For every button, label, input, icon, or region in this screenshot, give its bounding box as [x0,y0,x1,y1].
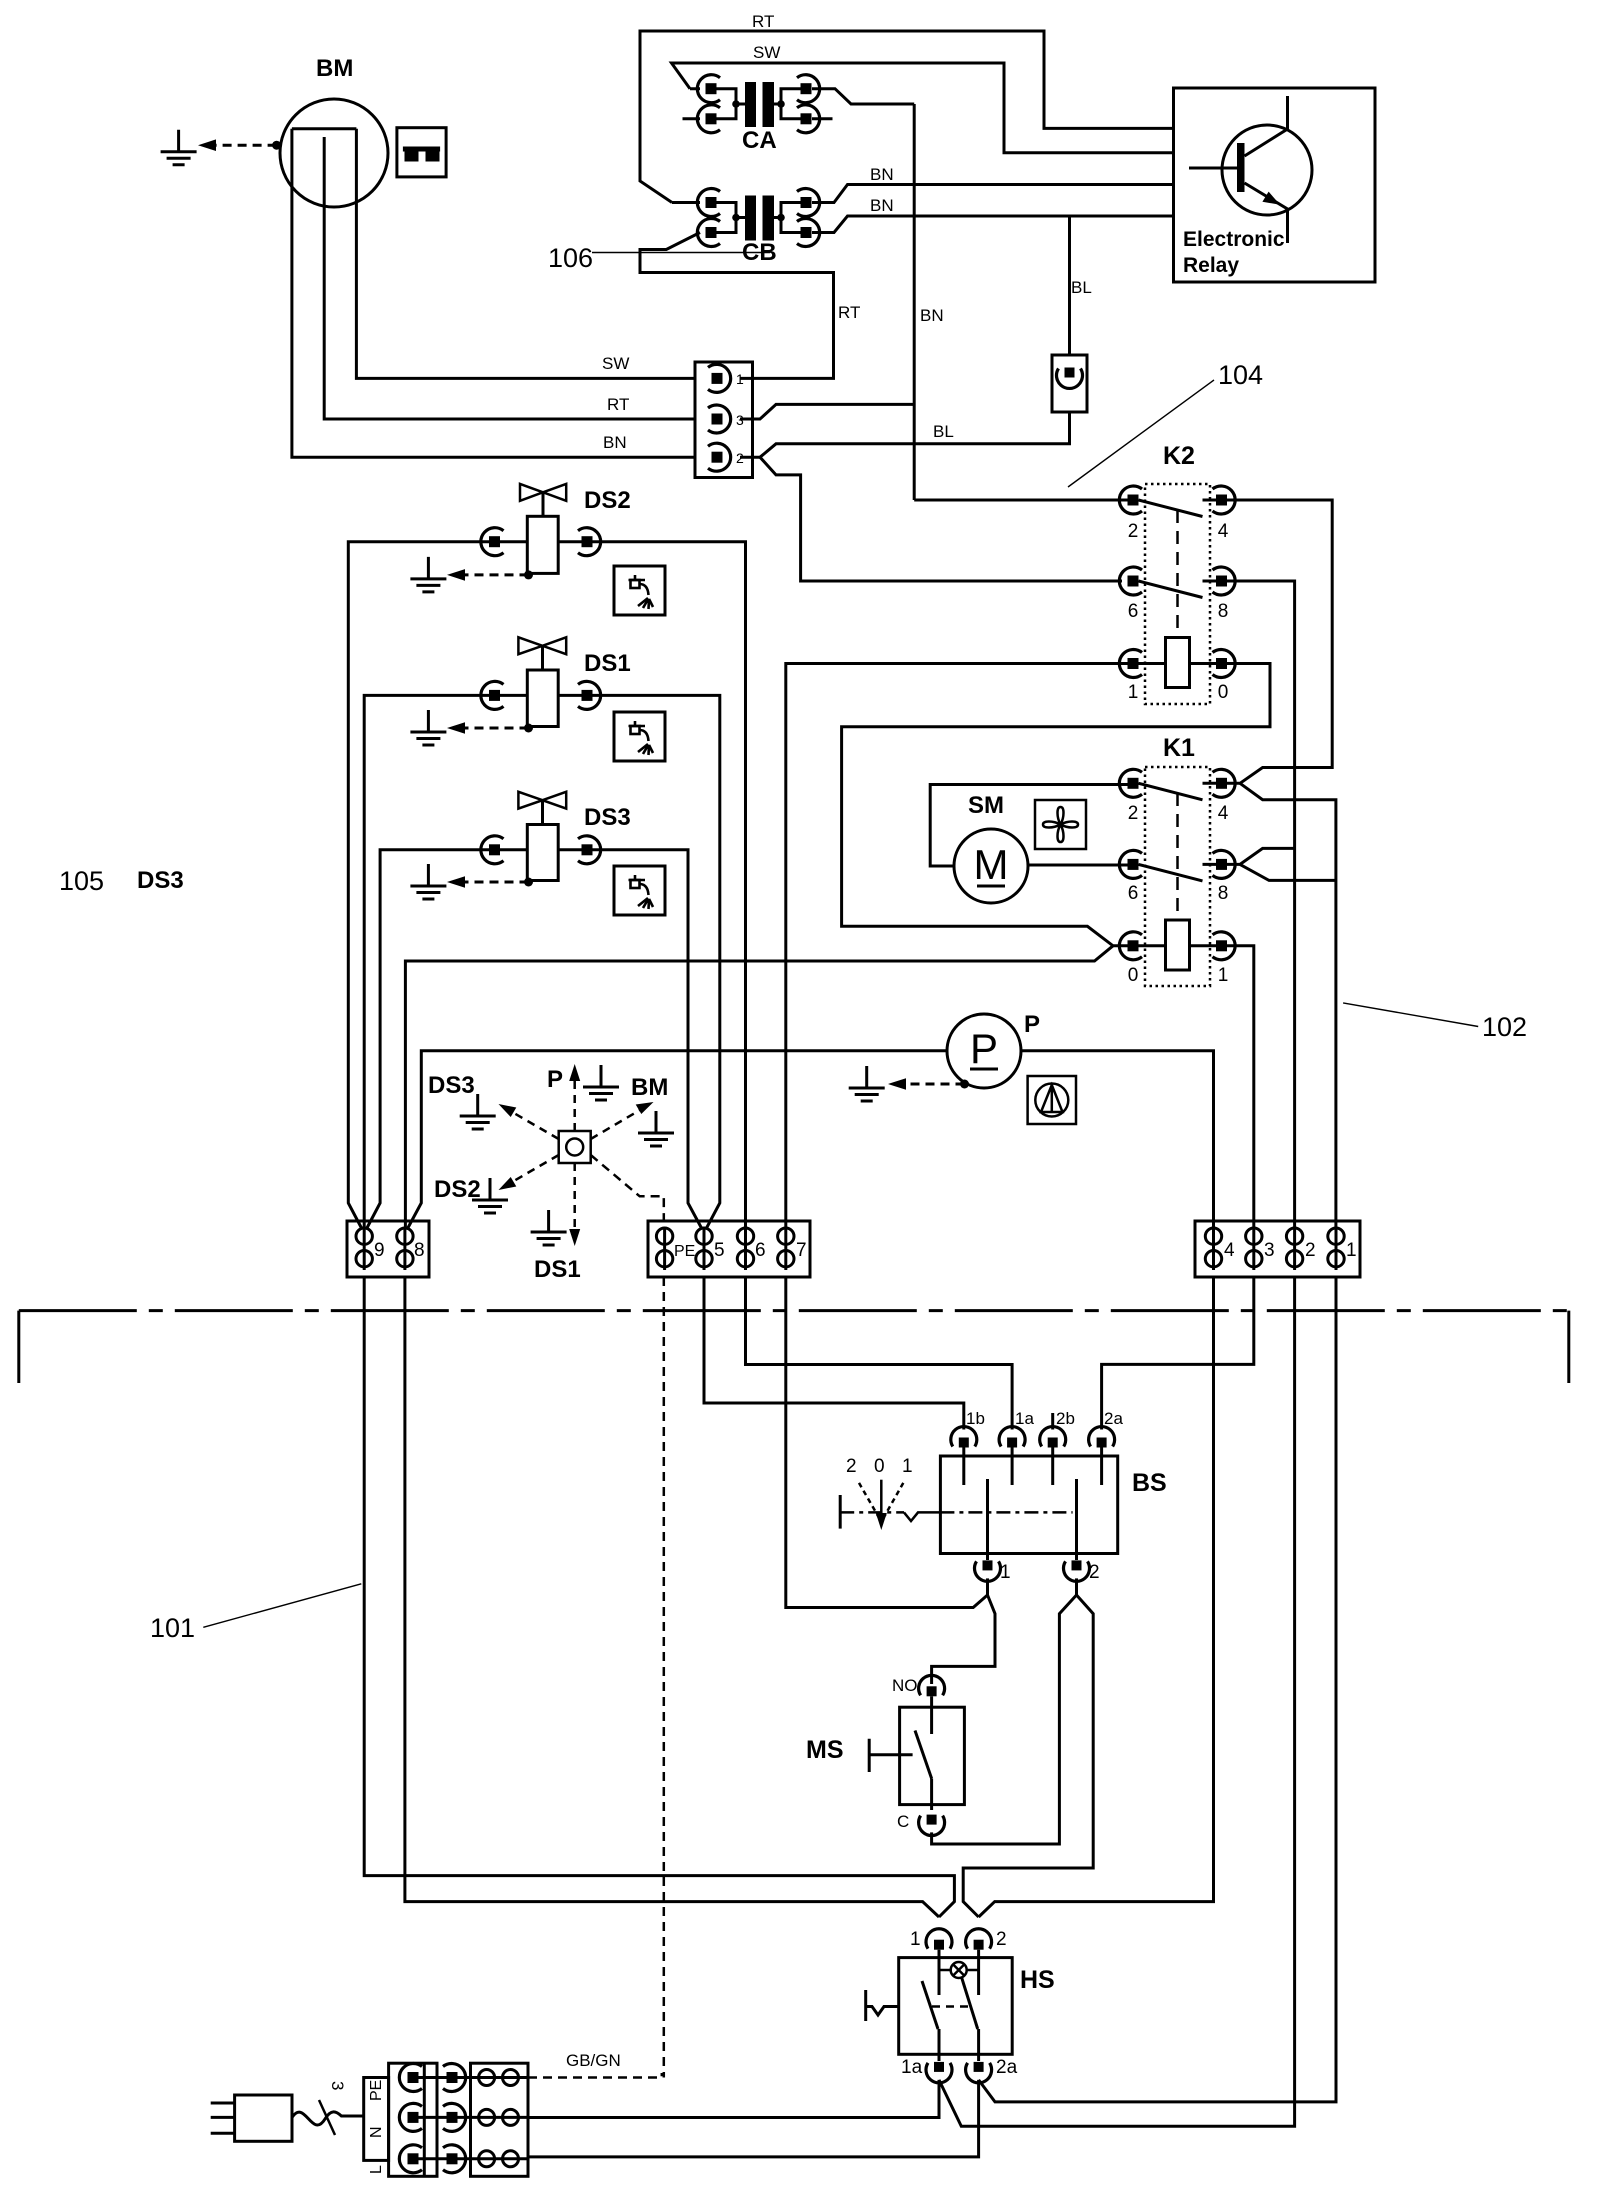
BS pin 2b stub [1051,1413,1054,1430]
wire K1 pin 8 fork to vertical x1294 [1227,848,1295,864]
BS pin 2b stem [1051,1448,1054,1486]
fan icon propeller [1043,807,1078,842]
valve DS1 stem [541,646,544,670]
wire K2 pin 1 row to strip pin 7 [786,664,1128,1229]
wire strip pin 5 down to BS pin 1b [704,1277,964,1430]
HS lamp connections [939,1969,979,1972]
BS pin 2a stem [1100,1448,1103,1486]
wire BS pin 1 to MS NO [932,1595,995,1684]
HS pin 2a plug [966,2062,992,2083]
ground right of P arrow [583,1065,619,1100]
mains plug body [235,2095,292,2141]
mating plug PE [443,2064,466,2092]
block A inner wall [423,2063,426,2176]
svg-text:1: 1 [1218,965,1229,986]
connector CA right plug upper [797,75,820,103]
valve DS3 stem [541,800,544,824]
svg-text:BN: BN [603,433,627,452]
arrowhead DS1 ground arrow [447,722,465,734]
right strip pin 2 circles [1293,1229,1296,1270]
wire K2 pin 0 around to K1 pin 0 [842,664,1270,946]
BS pin 2b plug [1040,1427,1066,1448]
transistor base lead [1189,167,1237,170]
K1 pin 0 plug [1119,932,1142,960]
svg-text:2a: 2a [1104,1409,1123,1428]
connector CB right plug upper [797,189,820,217]
svg-text:RT: RT [607,395,629,414]
junction dot at pump [960,1080,969,1089]
faucet icon DS3 [629,875,654,909]
switch BS box [940,1456,1117,1554]
svg-text:SW: SW [602,354,629,373]
svg-text:9: 9 [374,1240,385,1261]
connector pin 1 [708,364,731,392]
wire right strip pin 1 down to HS pin 2a diagonal [979,1277,1336,2102]
svg-text:2: 2 [996,1929,1007,1950]
svg-text:4: 4 [1218,803,1229,824]
dashed ground arrow DS2 [465,573,529,576]
svg-text:PE: PE [368,2080,385,2101]
arrowhead P [569,1064,580,1081]
svg-text:1: 1 [736,371,744,387]
dashed arrow up-left to DS3 [512,1112,559,1139]
svg-text:NO: NO [892,1676,918,1695]
block B N circles [458,2116,529,2119]
transistor base bar [1237,143,1245,192]
valve DS2 body [527,516,558,573]
leader line for 102 [1343,1003,1478,1027]
svg-text:8: 8 [1218,601,1229,622]
CA housing bar left [745,82,756,127]
K2 pin 1 plug [1119,650,1142,678]
HS pin 2a stem in box [977,2029,980,2061]
block A L plug [399,2145,422,2173]
svg-text:2: 2 [1089,1562,1100,1583]
terminal block label holder [364,2078,389,2161]
motor BM circle [280,99,388,207]
left strip pin 9 circles [363,1229,366,1270]
BS pin 1b stem [962,1448,965,1486]
svg-text:1a: 1a [1015,1409,1034,1428]
svg-text:Relay: Relay [1183,254,1239,277]
wire DS3 left down to left strip pin 9 [366,850,527,1229]
wire K2 pin 4 right down to K1 pin 4 fork [1227,500,1332,783]
wire K1 pin 1 down to right strip pin 3 [1227,946,1254,1228]
fuse holder box [1052,355,1087,412]
wire right strip pin 2 down to HS pin 1a diagonal [939,1277,1295,2126]
dashed ground arrow DS1 [465,727,529,730]
wire right strip pin 4 down to HS pin 2 [979,1277,1214,1917]
svg-text:HS: HS [1020,1966,1055,1994]
K2 contact blade row 1 [1139,500,1217,517]
wire DS2 right down to strip pin 6 [558,542,745,1228]
svg-text:0: 0 [1218,682,1229,703]
junction dot on BM circle [272,141,281,150]
ground at BM [161,130,197,165]
dashed GB/GN wire from PE row [528,2073,662,2078]
svg-text:1: 1 [1000,1562,1011,1583]
connector CA left plug lower [697,105,720,133]
leader line for 101 [203,1584,361,1628]
wire HS pin 2a down to L row [528,2080,979,2157]
svg-text:RT: RT [752,12,774,31]
dashed ground arrow from BM [216,144,277,147]
mating plug N [443,2103,466,2131]
valve DS2 right plug [578,528,601,556]
chassis divider dash-dot line [19,1309,1569,1312]
K2 coil connection wires [1139,662,1217,665]
CA left link wires to housing [717,89,746,119]
arrowhead down [569,1229,580,1246]
svg-text:2: 2 [1128,521,1139,542]
fan icon box [1035,800,1086,849]
Electronic Relay box [1174,88,1376,282]
K1 coil [1166,920,1190,970]
wire right strip pin 3 down to BS pin 2a [1102,1277,1254,1430]
K1 coil connection wires [1139,944,1217,947]
valve DS2 stem [542,492,545,516]
HS box [899,1958,1013,2055]
fuse plug [1057,368,1083,389]
mains cable squiggle [292,2112,364,2125]
connector CB left plug upper [697,189,720,217]
BS pin 1b plug [951,1427,977,1448]
K2 pin 2 plug [1119,486,1142,514]
middle strip pin 7 circles [784,1229,787,1270]
wire DS3 right down to strip pin 5 [558,850,702,1229]
svg-text:1: 1 [1128,682,1139,703]
svg-text:PE: PE [674,1243,695,1260]
CA right junction dot [777,100,785,108]
top connector box (pins 1/3/2) [695,362,753,478]
leader line for 106 [592,252,770,254]
MS actuator [869,1739,912,1772]
svg-text:8: 8 [1218,883,1229,904]
left strip pin 8 circles [403,1229,406,1270]
svg-text:BL: BL [1071,278,1092,297]
CA lower-left spare stub [683,117,701,120]
svg-text:102: 102 [1482,1012,1527,1042]
svg-text:CA: CA [742,127,777,154]
wire left strip pin 8 down to HS pin 1 [405,1277,939,1917]
middle strip pin 6 circles [744,1229,747,1270]
svg-text:DS2: DS2 [584,487,631,514]
svg-text:Electronic: Electronic [1183,228,1285,251]
wire RT from BM center down to connector pin 3 [324,137,695,419]
transistor circle [1222,125,1312,215]
wire SM right terminal to K1 pin 6 [1028,864,1128,867]
BS pin 1 fork stem [986,1578,989,1595]
dashed arrow up-right to BM [591,1110,640,1139]
controller cross circle [566,1139,583,1156]
HS pin 1 stem into box [938,1950,941,1995]
K1 pin 8 plug [1213,850,1236,878]
wire BN into K2 pin 2 [914,499,1127,502]
left terminal strip box [347,1221,429,1277]
svg-text:2b: 2b [1056,1409,1075,1428]
BS rotary dashed position lines [859,1483,903,1517]
right strip pin 1 circles [1335,1229,1338,1270]
valve DS3 bowtie [518,792,566,809]
svg-text:DS3: DS3 [137,867,184,894]
svg-text:104: 104 [1218,360,1263,390]
svg-text:2: 2 [1128,803,1139,824]
arrowhead DS2 arrow [499,1177,517,1190]
ground right of DS2 label [472,1178,508,1213]
pump P circle [947,1014,1021,1088]
wire BN from BM left edge down to connector pin 2 [292,129,695,457]
svg-text:GB/GN: GB/GN [566,2051,621,2070]
terminal block B body [471,2063,529,2176]
faucet icon box DS3 [614,866,665,915]
svg-text:0: 0 [874,1456,885,1477]
svg-text:BN: BN [920,306,944,325]
svg-text:DS3: DS3 [428,1072,475,1099]
svg-text:4: 4 [1224,1240,1235,1261]
transistor emitter [1245,183,1288,243]
right strip pin 4 circles [1212,1229,1215,1270]
divider left end bracket [17,1311,20,1383]
arrowhead of pump ground arrow [888,1078,906,1090]
HS lamp [951,1962,967,1978]
K2 pin 8 plug [1213,567,1236,595]
arrowhead of BM ground arrow [198,139,216,151]
K1 pin 4 plug [1213,769,1236,797]
CA right link wires to housing [774,89,801,119]
wire left strip pin 9 down to HS pin 1 [364,1277,954,1917]
divider right end bracket [1567,1311,1570,1383]
valve DS1 bowtie [518,637,566,654]
block A N plug [399,2103,422,2131]
wire RT from CB lower-left down around to connector pin 1 [640,233,834,379]
junction dot DS1 [524,724,533,733]
svg-text:SW: SW [753,43,780,62]
mains plug prongs [211,2103,235,2133]
K2 pin 0 plug [1213,650,1236,678]
faucet icon DS1 [629,721,654,755]
wire K2 pin 8 right down to right strip pin 2 [1227,581,1295,1228]
dashed wire from cross to PE pin [591,1155,664,1228]
wire from pin 3 to BN vertical [740,404,914,419]
right strip pin 3 circles [1252,1229,1255,1270]
svg-text:6: 6 [1128,883,1139,904]
ground at DS3 [410,864,446,899]
svg-text:3: 3 [1264,1240,1275,1261]
SM motor underline [977,885,1005,888]
svg-text:1: 1 [910,1929,921,1950]
svg-text:1b: 1b [966,1409,985,1428]
wire SM left terminal up and over to K1 pin 2 [930,785,1127,867]
faucet icon box DS2 [614,566,665,615]
CA left junction dot [732,100,740,108]
HS switch blade 1 [922,1981,938,2029]
wire HS pin 1a down to N row [528,2080,939,2118]
wire P left to left strip pin 8 [407,1051,947,1229]
ground bottom of cross [531,1210,567,1245]
BN vertical wire from CA down to K2 pin 2 row [913,104,916,500]
valve DS1 right plug [578,681,601,709]
link wires between plug halves [419,2078,447,2159]
CB right link wires to housing [774,203,801,233]
BS pin 1 bottom plug [975,1560,1001,1581]
BS rotary dash-dot shaft line with kink [840,1511,904,1514]
BS pin 1a stem [1011,1448,1014,1486]
BS rotary arrow [880,1480,883,1515]
svg-text:105: 105 [59,866,104,896]
wire branch from pin 2 down to K2 pin 6 [760,457,1122,581]
CB housing bar left [745,196,756,241]
transistor emitter arrowhead [1262,192,1280,205]
svg-text:BN: BN [870,165,894,184]
BS pin 2a plug [1089,1427,1115,1448]
valve DS3 right plug [578,836,601,864]
wire RT outer top loop from CB upper-left plug to Electronic Relay [640,31,1174,203]
CB right junction dot [777,214,785,222]
block A PE plug [399,2064,422,2092]
svg-text:7: 7 [796,1240,807,1261]
cable conductor-count slash [319,2100,335,2135]
MS switch blade [915,1731,932,1779]
svg-text:0: 0 [1128,965,1139,986]
arrowhead DS3 ground arrow [447,876,465,888]
wire SW from BM right edge down to connector pin 1 [356,129,695,379]
BS pin 2 fork stem [1075,1578,1078,1595]
K2 pin 4 plug [1213,486,1236,514]
svg-text:8: 8 [414,1240,425,1261]
faucet icon box DS1 [614,712,665,761]
transistor collector [1245,96,1288,156]
svg-text:L: L [368,2165,385,2174]
svg-text:3: 3 [328,2081,347,2090]
dashed ground arrow from pump [906,1083,965,1086]
ground at DS1 [410,710,446,745]
svg-text:6: 6 [1128,601,1139,622]
K2 coil [1166,638,1190,688]
svg-text:DS1: DS1 [534,1256,581,1283]
dashed arrow up to P [573,1078,576,1131]
arrowhead BM [636,1102,654,1114]
svg-text:BL: BL [933,422,954,441]
connector pin 2 [708,443,731,471]
svg-text:2: 2 [1305,1240,1316,1261]
brush icon bristles [405,152,419,162]
HS pin 2 stem into box [977,1950,980,1995]
svg-text:2: 2 [846,1456,857,1477]
middle strip pin PE circles [663,1229,666,1270]
controller cross diagram center box [559,1131,591,1163]
K1 pin 2 plug [1119,769,1142,797]
wire K1 pin 0 lower feed from strip pin 8 [405,946,1113,1228]
CB left link wires to housing [717,203,746,233]
brush icon box next to BM [397,128,446,177]
ground below BM label [638,1111,674,1146]
wire strip pin 7 down to BS pin 1 [786,1277,988,1608]
ground below DS3 label [460,1094,496,1129]
svg-text:4: 4 [1218,521,1229,542]
wire BL from fuse up to Electronic Relay [1068,216,1071,355]
block B L circles [458,2157,529,2160]
svg-text:RT: RT [838,303,860,322]
leader line for 104 [1068,380,1214,487]
K2 pin 6 plug [1119,567,1142,595]
faucet icon DS2 [629,575,654,609]
HS pin 1a plug [926,2062,952,2083]
svg-text:101: 101 [150,1613,195,1643]
arrowhead DS2 ground arrow [447,569,465,581]
dashed arrow down-left to DS2 [512,1155,559,1182]
MS box [900,1707,965,1804]
CB left junction dot [732,214,740,222]
wire BN1 from CB upper-right to Electronic Relay [812,185,1174,203]
HS pin 2 plug [966,1929,992,1950]
middle strip pin 5 circles [703,1229,706,1270]
svg-text:DS1: DS1 [584,650,631,677]
dashed ground arrow DS3 [465,881,529,884]
right terminal strip box [1195,1221,1360,1277]
connector CA right plug lower [797,105,820,133]
valve DS1 left plug [481,681,504,709]
pump P underline [970,1068,998,1071]
HS pin 1a stem in box [938,2029,941,2061]
svg-text:P: P [1024,1011,1040,1038]
HS blade link dashes [932,2005,968,2008]
K1 contact blade row 1 [1139,783,1217,800]
wire SW top from CA upper-left plug to Electronic Relay [672,63,1174,153]
BS pin 1 stem inside box [986,1479,989,1560]
svg-text:C: C [897,1812,909,1831]
svg-text:P: P [970,1025,998,1072]
middle terminal strip box [648,1221,810,1277]
mating plug L [443,2145,466,2173]
svg-text:SM: SM [968,792,1004,819]
relay K1 dotted outline [1145,767,1210,986]
HS actuator [866,1990,899,2021]
switch MS NO plug [919,1675,945,1696]
arrowhead DS3 arrow [499,1104,517,1117]
connector CB left plug lower [697,219,720,247]
motor SM circle [954,829,1028,903]
wire BS pin 2 right branch down to HS pin 2 [963,1595,1093,1917]
valve DS2 left plug [481,528,504,556]
wire BS pin 2 left branch to MS C [932,1595,1077,1844]
wire BL from pin 2 to fuse [740,412,1070,457]
terminal block A body [389,2063,437,2176]
K2 actuator dashed link [1176,510,1179,638]
CB housing bar right [763,196,775,241]
svg-text:K2: K2 [1163,442,1195,470]
svg-text:BM: BM [316,55,353,82]
wire DS1 right down to strip pin 5 [558,695,720,1229]
wire DS2 left down to left strip pin 9 [348,542,527,1229]
svg-text:1: 1 [902,1456,913,1477]
BS rotary stop bar [839,1495,842,1529]
relay K2 dotted outline [1145,484,1210,704]
svg-text:106: 106 [548,243,593,273]
K1 actuator dashed link [1176,793,1179,920]
wire K1 pin 8 lower fork to vertical x1336 [1240,864,1336,880]
wire BN2 from CB lower-right to Electronic Relay [812,216,1174,233]
MS C plug [919,1815,945,1836]
svg-text:K1: K1 [1163,734,1195,762]
svg-text:1a: 1a [901,2057,923,2078]
svg-text:BN: BN [870,196,894,215]
valve DS2 bowtie [520,484,566,501]
CA lower-right spare stub [812,117,833,120]
svg-text:N: N [368,2126,385,2138]
valve DS3 body [527,825,558,881]
wire from CA upper-right to BN vertical [812,89,914,104]
svg-text:BS: BS [1132,1469,1167,1497]
